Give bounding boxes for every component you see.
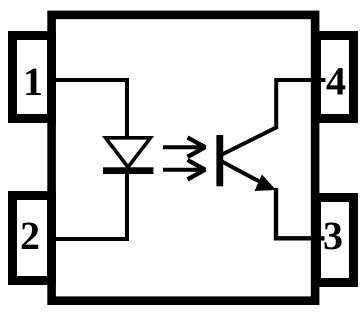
LED D1 cathode bar xyxy=(103,167,154,174)
pin 1 (anode terminal box) xyxy=(13,36,52,119)
light arrow 1 tail xyxy=(163,145,203,149)
LED D1 triangle (anode) xyxy=(106,138,151,167)
svg-text:1: 1 xyxy=(23,59,43,104)
pin 2 (cathode terminal box) xyxy=(13,196,52,281)
pin 4 (collector terminal box) xyxy=(317,36,354,119)
light arrow 1 head xyxy=(188,138,206,157)
pin 3 (emitter terminal box) xyxy=(317,198,354,283)
wire LED cathode to pin2 xyxy=(52,174,127,239)
svg-text:2: 2 xyxy=(20,213,40,258)
phototransistor Q1 base bar xyxy=(216,135,223,186)
light arrow 2 tail xyxy=(163,168,203,172)
wire emitter to pin3 xyxy=(276,188,325,238)
light arrow 2 head xyxy=(188,160,206,179)
svg-text:3: 3 xyxy=(323,213,343,258)
wire collector to pin4 xyxy=(276,80,325,129)
Q1 emitter arrowhead xyxy=(255,175,277,192)
Q1 emitter line xyxy=(221,161,264,184)
wire pin1 to LED anode xyxy=(52,80,127,138)
Q1 collector line xyxy=(221,128,276,156)
package body U1 (DIP-4 outline) xyxy=(52,15,316,301)
svg-text:4: 4 xyxy=(326,59,346,104)
